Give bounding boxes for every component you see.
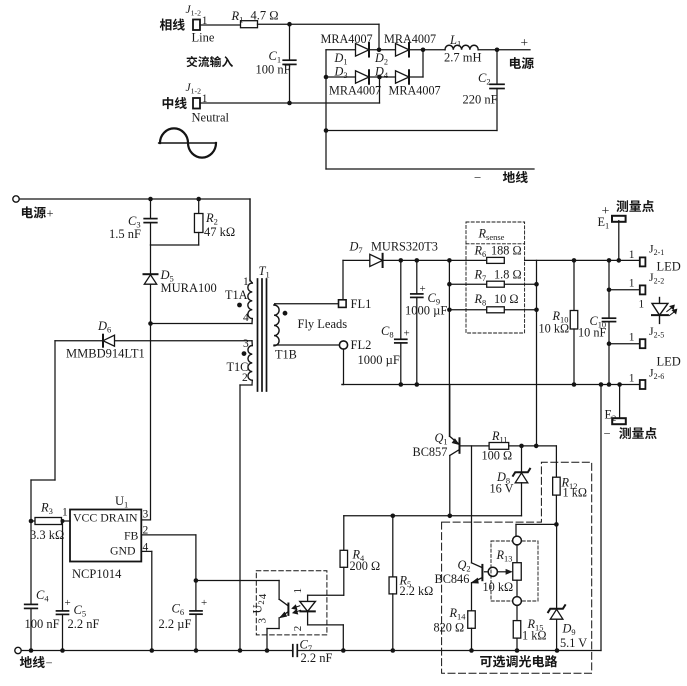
svg-text:R1: R1 (231, 9, 244, 25)
svg-text:R7: R7 (474, 268, 487, 284)
node DC- C2 junction (324, 128, 329, 133)
wire Q2 base to wiper terminal (485, 571, 489, 573)
node C2 top (495, 48, 500, 53)
node Q1 collector junction (448, 514, 453, 519)
resistor R6 188ohm (487, 257, 505, 263)
capacitor C3 (150, 199, 152, 219)
zener diode D8 16V (521, 446, 523, 472)
svg-text:J2-1: J2-1 (649, 242, 664, 258)
svg-text:MMBD914LT1: MMBD914LT1 (66, 347, 145, 361)
label 电源+ (22, 206, 33, 218)
node E1 junction (617, 258, 622, 263)
svg-text:R8: R8 (474, 292, 487, 308)
label 测量点 (E2) (619, 427, 631, 439)
resistor R11 100ohm (489, 443, 509, 450)
sine wave AC symbol (159, 142, 216, 144)
U2 light arrows (292, 605, 300, 609)
label 相线 (160, 19, 172, 31)
transistor Q1 BC857 (PNP) (449, 385, 451, 437)
connector J2-5 (640, 339, 646, 348)
node LED- down wire (599, 382, 604, 387)
LED symbol (external) (659, 298, 661, 304)
svg-text:3: 3 (243, 338, 249, 350)
wire U2 LED anode to R4 (308, 594, 344, 596)
wire rail down to T1 pin1 (249, 199, 251, 281)
wire down to D1-D2 junction (378, 24, 380, 50)
svg-text:+: + (201, 597, 207, 609)
svg-text:MRA4007: MRA4007 (384, 32, 436, 46)
connector J2-1 (640, 257, 646, 266)
svg-text:1.5 nF: 1.5 nF (109, 227, 141, 241)
capacitor C9 1000uF (416, 260, 418, 294)
node R7 left (447, 282, 452, 287)
resistor R5 2.2kohm (392, 516, 394, 577)
terminal 电源+ circle (13, 196, 19, 202)
wire up to D3-D4 junction (379, 77, 381, 103)
T1 primary winding T1A (249, 199, 251, 280)
wire L1 to plus terminal (478, 49, 530, 51)
node R10 top (572, 258, 577, 263)
LED emission arrows (667, 305, 674, 311)
wire C3-R2 bottom join (151, 244, 199, 246)
svg-text:−: − (474, 170, 481, 185)
capacitor C4 100nF (25, 603, 38, 605)
label 电源 (top) (510, 57, 521, 69)
svg-text:100 nF: 100 nF (25, 617, 60, 631)
svg-text:Neutral: Neutral (192, 111, 230, 125)
diode D7 MURS320T3 (343, 259, 370, 261)
svg-text:J1-2: J1-2 (186, 82, 202, 96)
node U2 emitter ground (265, 648, 270, 653)
resistor R10 10kohm (573, 260, 575, 310)
svg-text:LED: LED (657, 260, 681, 274)
capacitor C7 2.2nF (Y-cap) (292, 645, 294, 657)
svg-text:Fly Leads: Fly Leads (298, 317, 348, 331)
resistor R2 (198, 199, 200, 214)
node R2 top (196, 197, 201, 202)
svg-text:3.3 kΩ: 3.3 kΩ (30, 528, 64, 542)
wire VCC column down (30, 480, 32, 604)
capacitor C5 2.2nF (62, 521, 64, 611)
svg-text:1: 1 (639, 299, 645, 311)
svg-text:2.2 nF: 2.2 nF (68, 617, 100, 631)
wire R12 bottom to R13 top (516, 523, 556, 525)
Rsense dashed box (466, 222, 525, 333)
optocoupler U2 dashed box (256, 571, 327, 635)
svg-text:BC857: BC857 (413, 445, 448, 459)
svg-text:D4: D4 (374, 65, 389, 81)
svg-text:BC846: BC846 (435, 572, 470, 586)
terminal E1 bar (612, 216, 626, 222)
wire FB node to U2 collector (196, 580, 279, 582)
node C5 ground (60, 648, 65, 653)
svg-text:U2: U2 (251, 600, 266, 613)
node C4 ground (29, 648, 34, 653)
diode D2 MRA4007 (396, 44, 410, 57)
wire jog to VCC column (31, 479, 55, 481)
svg-text:LED: LED (657, 355, 681, 369)
svg-text:100 Ω: 100 Ω (482, 449, 513, 463)
svg-text:+: + (65, 597, 71, 609)
svg-text:2: 2 (292, 626, 304, 632)
wire FL2 down to bottom rail (343, 349, 345, 384)
R13 dashed box (491, 541, 538, 601)
capacitor C10 10nF (608, 260, 610, 318)
phase dot T1A (237, 303, 242, 308)
svg-text:GND: GND (110, 543, 136, 557)
svg-text:2.2 nF: 2.2 nF (301, 651, 333, 665)
resistor R12 1kohm (553, 477, 561, 495)
svg-text:100 nF: 100 nF (256, 63, 291, 77)
wire Rsense left vertical (to Q1 emitter) (448, 260, 450, 436)
svg-text:10 nF: 10 nF (578, 326, 607, 340)
wire U1 pin2 FB (141, 534, 196, 536)
svg-text:U1: U1 (115, 494, 128, 510)
inductor L1 2.7mH (445, 45, 478, 50)
wire Q2 emitter to R14 (471, 583, 473, 611)
svg-text:5.1 V: 5.1 V (560, 636, 587, 650)
node R8 left (447, 308, 452, 313)
node C10 top (607, 258, 612, 263)
svg-text:1 kΩ: 1 kΩ (522, 629, 547, 643)
phase dot T1B (283, 311, 288, 316)
wire output bottom rail (342, 384, 640, 386)
svg-text:C6: C6 (172, 602, 185, 618)
node R15 ground (515, 648, 520, 653)
node R14 ground (469, 648, 474, 653)
node C3 top (148, 197, 153, 202)
IC U1 NCP1014 box (70, 510, 141, 562)
svg-text:1: 1 (243, 276, 249, 288)
svg-text:3: 3 (257, 618, 269, 624)
wire R12 column (555, 446, 557, 477)
label 地线− (20, 656, 32, 668)
wire D4 to DC+ riser (422, 50, 424, 77)
svg-text:R6: R6 (474, 244, 487, 260)
node Line-C1 junction (287, 22, 292, 27)
resistor R7 1.8ohm (449, 283, 536, 285)
svg-text:188 Ω: 188 Ω (491, 244, 522, 258)
svg-text:D7: D7 (349, 240, 363, 256)
node C8 top (399, 258, 404, 263)
terminal circle (R13 bottom) (513, 597, 522, 606)
ground rail right of C7 (298, 650, 601, 652)
svg-text:220 nF: 220 nF (463, 93, 498, 107)
node VCC R3 junction (29, 519, 34, 524)
capacitor C1 (289, 24, 291, 60)
svg-text:10 kΩ: 10 kΩ (483, 580, 514, 594)
svg-text:T1B: T1B (275, 348, 297, 362)
svg-text:1000 µF: 1000 µF (405, 304, 447, 318)
svg-text:D9: D9 (562, 622, 576, 638)
U2 phototransistor (278, 581, 280, 600)
wire drain node down to U1 pin3 column (150, 324, 152, 520)
terminal E2 bar (612, 418, 626, 424)
node DC+ top (421, 48, 426, 53)
T1 secondary winding T1B (274, 305, 279, 346)
node R5 top (391, 514, 396, 519)
svg-text:4.7 Ω: 4.7 Ω (251, 9, 279, 23)
svg-text:200 Ω: 200 Ω (350, 559, 381, 573)
svg-text:R14: R14 (449, 606, 467, 622)
resistor R3 3.3kohm (31, 520, 35, 522)
zener diode D9 5.1V (556, 524, 558, 608)
node FB-C6 junction (194, 578, 199, 583)
wire LED- to secondary ground (600, 385, 602, 651)
terminal circle (wiper) (488, 567, 497, 576)
node R10 bottom (572, 382, 577, 387)
svg-text:D3: D3 (334, 65, 348, 81)
svg-text:FB: FB (124, 528, 139, 542)
ground rail left of C7 (21, 650, 292, 652)
svg-text:C2: C2 (478, 71, 491, 87)
svg-text:MRA4007: MRA4007 (329, 84, 381, 98)
terminal 地线- circle (15, 647, 21, 653)
node R12-D9 junction (554, 522, 559, 527)
svg-text:E2: E2 (605, 408, 617, 424)
svg-text:+: + (404, 328, 410, 340)
node C8 bottom (399, 382, 404, 387)
connector J1-2 Neutral (193, 98, 200, 109)
wire U1 pin3 drain (141, 519, 150, 521)
wire U2 LED cathode to ground (308, 624, 344, 626)
potentiometer R13 10kohm (516, 545, 518, 563)
svg-text:R11: R11 (491, 429, 508, 445)
wire feedback row y=515.8 (344, 515, 522, 517)
svg-text:FL2: FL2 (351, 338, 372, 352)
svg-text:4: 4 (243, 312, 249, 324)
svg-text:+: + (521, 35, 529, 50)
svg-text:J1-2: J1-2 (186, 4, 202, 18)
wire FL1 up to D7 (342, 260, 344, 299)
svg-text:1: 1 (629, 249, 635, 261)
node U1 GND ground (150, 648, 155, 653)
wire R11 to corner (509, 445, 557, 447)
wire J2-2 branch (609, 289, 640, 291)
wire bridge top row (326, 49, 423, 51)
wire DC+ to L1 (423, 49, 445, 51)
svg-text:NCP1014: NCP1014 (72, 567, 122, 581)
label 交流输入 (187, 56, 198, 67)
resistor R1 (241, 21, 258, 28)
svg-text:1000 µF: 1000 µF (358, 353, 400, 367)
wire 电源+ rail (19, 198, 250, 200)
node C6 ground (194, 648, 199, 653)
transistor Q2 BC846 (NPN) (471, 446, 473, 563)
capacitor C2 (496, 50, 498, 85)
svg-text:+: + (420, 283, 426, 295)
svg-text:47 kΩ: 47 kΩ (204, 225, 235, 239)
svg-text:1: 1 (629, 332, 635, 344)
R13 wiper arrow (497, 571, 509, 573)
svg-text:T1A: T1A (225, 288, 248, 302)
svg-text:+: + (47, 207, 54, 221)
diode D6 VCC rectifier (55, 340, 252, 342)
wire T1B bottom to FL2 (274, 344, 340, 346)
svg-text:R13: R13 (496, 548, 513, 564)
label 中线 (163, 97, 174, 109)
resistor R15 1kohm (513, 621, 521, 639)
node C5 tap (61, 519, 65, 523)
svg-text:L1: L1 (449, 33, 461, 49)
svg-text:16 V: 16 V (490, 482, 514, 496)
svg-text:1: 1 (629, 373, 635, 385)
node C10 bottom (607, 382, 612, 387)
wire C2 bottom to DC- column (326, 130, 497, 132)
connector FL1 square (339, 300, 347, 308)
svg-text:2.7 mH: 2.7 mH (444, 51, 482, 65)
svg-text:2.2 µF: 2.2 µF (159, 617, 192, 631)
svg-text:−: − (46, 656, 53, 670)
svg-text:T1C: T1C (227, 360, 249, 374)
wire D7 to Rsense (383, 259, 487, 261)
svg-text:820 Ω: 820 Ω (434, 621, 465, 635)
svg-text:C8: C8 (381, 324, 394, 340)
wire bottom DC- rail (326, 168, 534, 170)
svg-text:MURS320T3: MURS320T3 (371, 240, 438, 254)
connector FL2 circle (339, 341, 347, 349)
svg-text:3: 3 (143, 509, 149, 521)
node C9 top (415, 258, 420, 263)
svg-text:−: − (604, 427, 611, 441)
label 测量点 (E1) (616, 200, 628, 212)
svg-text:D6: D6 (97, 319, 111, 335)
node E2 junction (617, 382, 622, 387)
node sense line join (534, 444, 539, 449)
svg-text:MRA4007: MRA4007 (321, 32, 373, 46)
phase dot T1C (242, 351, 247, 356)
node R8 right (534, 308, 539, 313)
svg-text:J2-5: J2-5 (649, 324, 664, 340)
svg-text:1: 1 (292, 588, 304, 594)
wire Line connector to R1 (200, 24, 241, 26)
wire bridge left DC- column (325, 50, 327, 169)
svg-text:1 kΩ: 1 kΩ (563, 486, 588, 500)
node C9 bottom (415, 382, 420, 387)
T1 auxiliary winding T1C (251, 341, 253, 346)
connector J1-2 Line (193, 20, 200, 31)
svg-text:MURA100: MURA100 (161, 281, 217, 295)
node D9 ground (555, 648, 560, 653)
wire Neutral to bridge (200, 102, 380, 104)
node D3 left (324, 75, 329, 80)
wire bridge bottom row (326, 76, 423, 78)
svg-text:Line: Line (192, 31, 215, 45)
T1 core lines (257, 279, 259, 391)
terminal circle (R13 top) (513, 536, 522, 545)
node D8 top (519, 444, 524, 449)
svg-text:Rsense: Rsense (478, 227, 505, 242)
svg-text:10 Ω: 10 Ω (494, 292, 519, 306)
svg-text:2.2 kΩ: 2.2 kΩ (400, 584, 434, 598)
node drain-snubber junction (148, 321, 153, 326)
svg-text:1: 1 (62, 507, 68, 519)
wire R13 bottom to R15 (516, 605, 518, 620)
capacitor C6 2.2uF (195, 581, 197, 611)
diode D3 MRA4007 (356, 71, 370, 84)
diode D5 (snubber) (150, 245, 152, 274)
connector J2-2 (640, 285, 646, 294)
U2 LED (307, 595, 309, 601)
wire R1 to bridge (258, 23, 380, 25)
svg-text:MRA4007: MRA4007 (389, 84, 441, 98)
wire Rsense right vertical down to R11 row (536, 260, 538, 446)
svg-text:VCC DRAIN: VCC DRAIN (73, 510, 138, 524)
node Neutral-C1 junction (287, 101, 292, 106)
node T1C pin2 ground (238, 648, 243, 653)
wire E1 to rail (618, 221, 620, 261)
wire T1B top to FL1 (275, 303, 339, 305)
wire E2 terminal (619, 385, 621, 420)
svg-text:R3: R3 (40, 501, 53, 517)
node Rsense left top (447, 258, 452, 263)
svg-text:1.8 Ω: 1.8 Ω (494, 268, 522, 282)
node D1-D2 junction (377, 48, 382, 53)
connector J2-6 (640, 380, 646, 389)
wire Q1 collector down (449, 456, 451, 516)
svg-text:FL1: FL1 (351, 297, 372, 311)
resistor R4 200ohm (343, 516, 345, 551)
label 地线 (top) (503, 171, 515, 183)
wire U1 pin4 GND (141, 550, 152, 552)
resistor R14 820ohm (468, 611, 476, 629)
dimming circuit dashed outline (442, 462, 592, 673)
wire output top rail to J2-1 (525, 259, 640, 261)
node R5 ground (391, 648, 396, 653)
node U2 LED cathode ground (341, 648, 346, 653)
wire J2-5 branch (609, 343, 640, 345)
svg-text:10 kΩ: 10 kΩ (539, 322, 570, 336)
node D3-D4 junction (377, 75, 382, 80)
wire T1C pin2 to ground (251, 380, 253, 385)
svg-text:4: 4 (257, 593, 269, 599)
wire Q1 base row (460, 445, 490, 447)
resistor R8 10ohm (449, 309, 536, 311)
svg-text:C4: C4 (36, 588, 49, 604)
wire U2 emitter to ground (267, 628, 279, 630)
diode D1 MRA4007 (356, 44, 370, 57)
svg-text:T1: T1 (259, 264, 270, 280)
node R7 right (534, 282, 539, 287)
capacitor C8 1000uF (400, 260, 402, 339)
wire D6 cathode down (54, 341, 56, 480)
svg-text:1: 1 (629, 278, 635, 290)
label 可选调光电路 (480, 656, 492, 667)
diode D4 MRA4007 (396, 71, 410, 84)
wire T1A pin4 to drain node (151, 323, 253, 325)
